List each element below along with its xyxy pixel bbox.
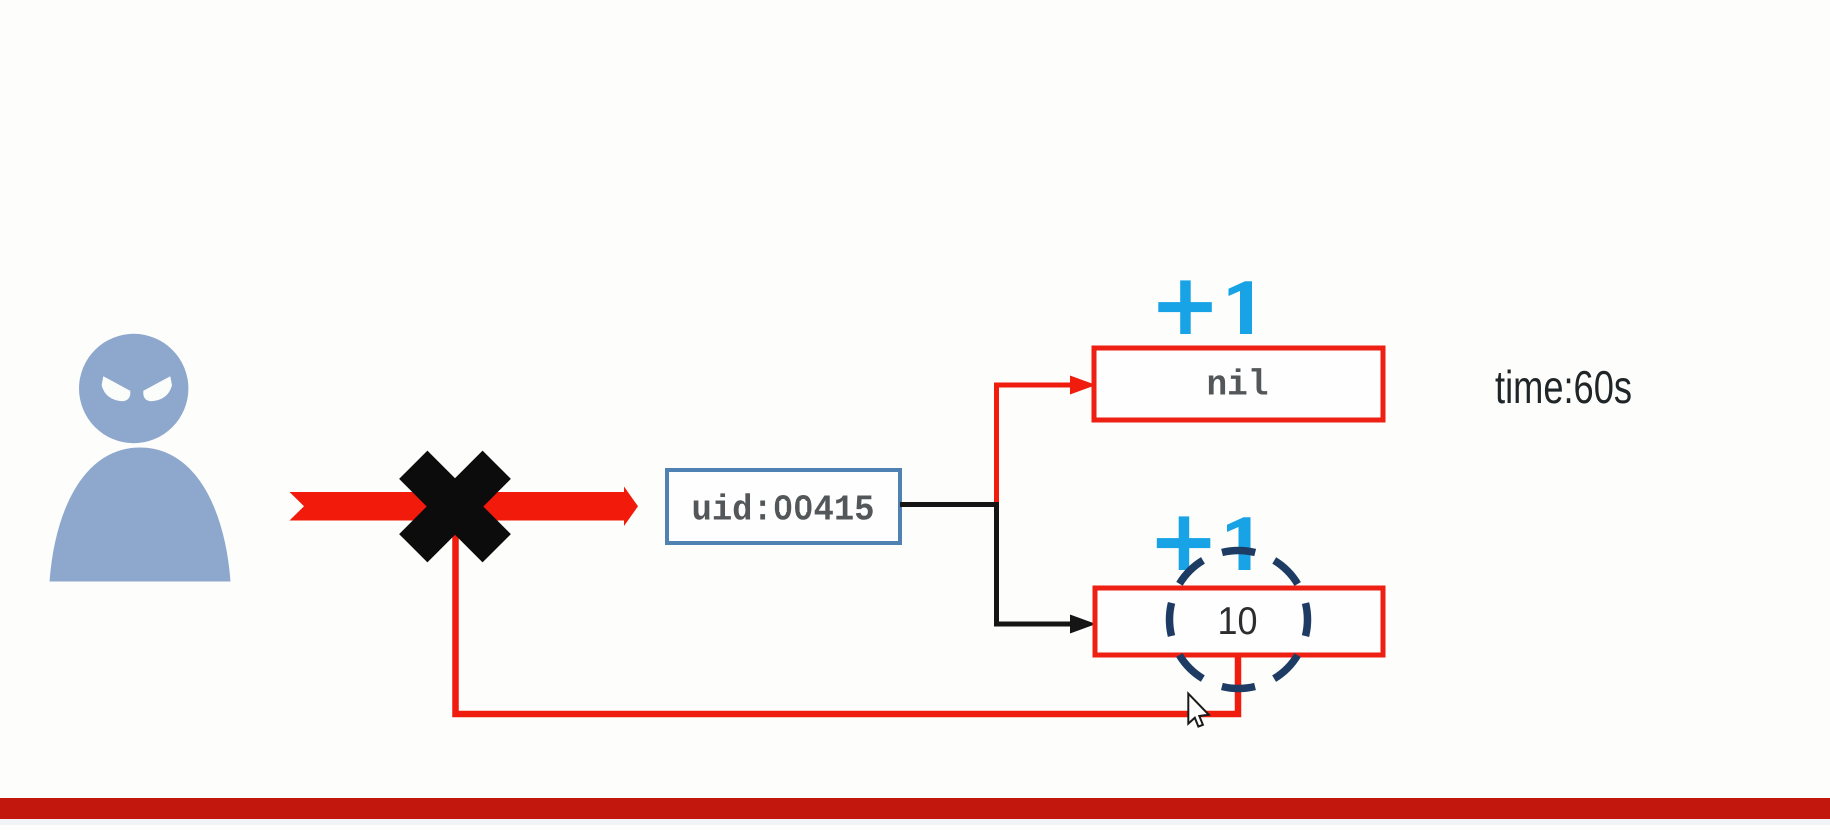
svg-text:time:60s: time:60s xyxy=(1495,361,1632,413)
+1 above 10 box xyxy=(1157,516,1251,570)
black X cross xyxy=(372,423,539,590)
nil box xyxy=(1094,348,1383,420)
black branch wire down to 10 box xyxy=(997,502,1073,624)
body xyxy=(50,448,231,582)
black arrowhead into 10 box xyxy=(1070,615,1096,634)
red elbow wire from X to box 10 bottom xyxy=(456,520,1239,714)
right eye xyxy=(143,376,172,401)
dashed navy circle around 10 xyxy=(1170,551,1308,689)
left eye xyxy=(102,376,131,401)
svg-text:nil: nil xyxy=(1207,365,1269,406)
light strip below bar xyxy=(0,819,1830,825)
svg-text:10: 10 xyxy=(1218,600,1258,643)
bottom dark red bar xyxy=(0,798,1830,819)
hacker user icon xyxy=(50,334,231,582)
black wire from uid box to branch xyxy=(900,502,999,507)
red arrowhead into nil box xyxy=(1070,376,1096,395)
mouse cursor xyxy=(1188,694,1209,727)
cover dots inside Liberation Mono zeros xyxy=(779,501,787,512)
uid box xyxy=(667,470,900,543)
10 box xyxy=(1095,588,1383,655)
+1 above nil box xyxy=(1158,280,1252,334)
red branch wire up to nil box xyxy=(997,385,1073,507)
head xyxy=(79,334,188,443)
thick red arrow band xyxy=(290,487,639,527)
